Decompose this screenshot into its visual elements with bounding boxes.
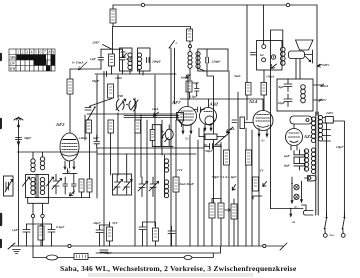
svg-text:1: 1 xyxy=(17,50,19,55)
svg-text:0.1µF: 0.1µF xyxy=(189,95,198,99)
svg-text:1µF: 1µF xyxy=(90,57,97,61)
svg-text:N: N xyxy=(293,197,297,201)
svg-text:-2mA 30µF: -2mA 30µF xyxy=(178,182,195,186)
svg-text:1mA: 1mA xyxy=(152,107,159,111)
svg-text:10µF: 10µF xyxy=(192,81,200,85)
svg-text:340V: 340V xyxy=(321,63,330,67)
svg-text:m: m xyxy=(293,220,296,224)
svg-text:8: 8 xyxy=(49,50,51,55)
svg-text:6µF: 6µF xyxy=(93,136,100,140)
svg-text:3mA: 3mA xyxy=(227,127,235,131)
svg-text:50µF: 50µF xyxy=(205,149,213,153)
svg-text:1V: 1V xyxy=(260,169,265,173)
svg-text:h2: h2 xyxy=(260,53,264,57)
svg-text:AB2: AB2 xyxy=(209,102,219,107)
svg-text:32mA: 32mA xyxy=(319,84,329,88)
svg-text:10µF: 10µF xyxy=(336,145,344,149)
svg-text:6: 6 xyxy=(40,50,42,55)
svg-text:65pF: 65pF xyxy=(92,79,100,83)
svg-text:KW: KW xyxy=(9,67,16,71)
svg-text:3mA: 3mA xyxy=(233,74,241,78)
svg-text:AZ1: AZ1 xyxy=(303,134,312,139)
svg-text:LW: LW xyxy=(9,61,16,65)
svg-text:50pF 0.1-0.3 2µF: 50pF 0.1-0.3 2µF xyxy=(212,175,237,179)
svg-text:8µF: 8µF xyxy=(279,85,286,89)
svg-text:5: 5 xyxy=(35,50,37,55)
svg-text:1µF: 1µF xyxy=(12,228,19,232)
svg-text:AF7: AF7 xyxy=(171,100,181,105)
svg-text:4: 4 xyxy=(31,50,33,55)
svg-text:15mA: 15mA xyxy=(266,75,275,79)
svg-text:2MF: 2MF xyxy=(92,41,101,45)
svg-text:200pF: 200pF xyxy=(151,60,162,64)
svg-text:9: 9 xyxy=(52,50,54,55)
svg-text:150V: 150V xyxy=(319,98,327,102)
svg-text:N): N) xyxy=(260,139,265,143)
svg-text:1000: 1000 xyxy=(115,76,122,80)
svg-text:16µF: 16µF xyxy=(278,101,286,105)
svg-text:35V: 35V xyxy=(111,221,118,225)
svg-text:3: 3 xyxy=(26,50,28,55)
svg-text:2: 2 xyxy=(22,50,24,55)
svg-text:240V: 240V xyxy=(325,111,334,115)
svg-text:0.1µF: 0.1µF xyxy=(56,225,65,229)
svg-text:6µF: 6µF xyxy=(284,154,291,158)
svg-text:40µF: 40µF xyxy=(92,221,101,225)
svg-text:8µF: 8µF xyxy=(284,164,291,168)
svg-text:220pF: 220pF xyxy=(211,60,222,64)
svg-text:1mA: 1mA xyxy=(181,76,188,80)
svg-text:Saba, 346 WL, Wechselstrom, 2: Saba, 346 WL, Wechselstrom, 2 Vorkreise,… xyxy=(60,264,297,273)
svg-text:0–15mA: 0–15mA xyxy=(72,61,84,65)
svg-text:N): N) xyxy=(66,170,71,174)
svg-text:7: 7 xyxy=(44,50,46,55)
svg-text:2: 2 xyxy=(176,41,178,45)
svg-text:700: 700 xyxy=(118,94,123,98)
svg-text:45µF: 45µF xyxy=(103,251,112,255)
svg-text:28V: 28V xyxy=(120,50,127,54)
svg-text:AL4: AL4 xyxy=(248,99,258,104)
svg-text:30pF: 30pF xyxy=(23,136,32,140)
svg-text:N): N) xyxy=(184,137,189,141)
svg-text:AF2: AF2 xyxy=(55,122,65,127)
svg-text:14V: 14V xyxy=(177,168,183,172)
svg-text:2µF: 2µF xyxy=(125,57,133,61)
svg-text:~: ~ xyxy=(330,231,335,240)
svg-text:12mA: 12mA xyxy=(79,136,88,140)
